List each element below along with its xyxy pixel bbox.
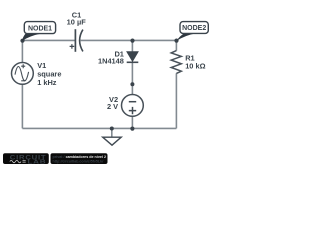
junction dot V2 bottom [130,127,134,131]
svg-text:http://circuitlab.com/c/5fv5Lk: http://circuitlab.com/c/5fv5Lkr [53,159,105,163]
voltage source V2 [121,95,143,117]
voltage source V1 [12,63,34,85]
wire bottom horizontal [22,127,176,129]
wire left vertical upper [21,40,23,62]
diode D1 cathode bar [127,61,139,63]
wire right vertical lower [175,73,177,128]
svg-text:10 µF: 10 µF [67,17,87,26]
wire top-left horizontal segment [22,39,75,41]
V1 sine glyph [15,66,29,80]
junction dot node2 corner [174,39,178,43]
junction dot ground tap [110,127,114,131]
node flag NODE1 [24,22,55,34]
svg-text:2 V: 2 V [107,102,118,111]
wire top-right horizontal segment [81,39,177,41]
junction dot diode-V2 [130,82,134,86]
diode D1 [127,52,138,62]
wire middle vertical diode top [131,40,133,51]
node flag NODE2 tail [176,33,196,41]
svg-text:10 kΩ: 10 kΩ [185,61,205,70]
wire middle vertical V2 bottom [131,116,133,128]
wire middle vertical diode to V2 [131,62,133,94]
capacitor C1 [75,29,83,52]
ground [103,137,122,145]
V1 minus sign [21,80,25,82]
node flag NODE1 tail [22,33,42,41]
resistor R1 [171,51,181,74]
V2 minus sign [129,101,136,103]
svg-text:LAB: LAB [28,159,47,165]
V2 plus sign [129,107,136,114]
junction dot node1 corner [20,39,24,43]
svg-text:privat / cambiadores de nivel: privat / cambiadores de nivel 2 [53,155,107,159]
junction dot diode tap [130,39,134,43]
watermark logo box [3,153,49,165]
node flag NODE2 [180,22,208,34]
capacitor C1 plus sign [70,44,75,49]
svg-text:1 kHz: 1 kHz [37,78,57,87]
wire ground stub [111,128,113,137]
V1 plus sign [21,64,25,68]
watermark text box [51,153,108,164]
wire right vertical upper [175,40,177,50]
wire left vertical lower [21,84,23,128]
svg-text:NODE1: NODE1 [28,25,52,32]
svg-text:NODE2: NODE2 [182,25,206,32]
svg-text:1N4148: 1N4148 [98,56,124,65]
